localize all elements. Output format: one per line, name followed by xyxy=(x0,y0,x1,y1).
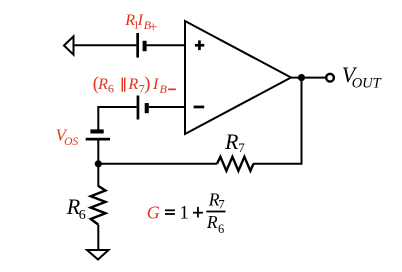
svg-text:6: 6 xyxy=(108,82,114,96)
svg-text:7: 7 xyxy=(218,197,224,211)
svg-text:1: 1 xyxy=(179,202,189,223)
svg-text:OS: OS xyxy=(64,136,78,148)
svg-text:OUT: OUT xyxy=(352,75,382,91)
svg-text:G: G xyxy=(147,202,160,222)
svg-text:6: 6 xyxy=(218,222,224,236)
svg-text:R: R xyxy=(224,129,239,154)
svg-text:I: I xyxy=(152,76,159,93)
svg-text:): ) xyxy=(144,75,150,95)
svg-text:R: R xyxy=(128,76,139,93)
svg-text:+: + xyxy=(149,19,157,35)
svg-text:R: R xyxy=(206,212,218,232)
svg-text:6: 6 xyxy=(79,208,86,223)
svg-text:B: B xyxy=(160,82,168,96)
svg-text:I: I xyxy=(137,12,144,29)
svg-text:R: R xyxy=(97,76,108,93)
svg-text:7: 7 xyxy=(238,140,245,155)
